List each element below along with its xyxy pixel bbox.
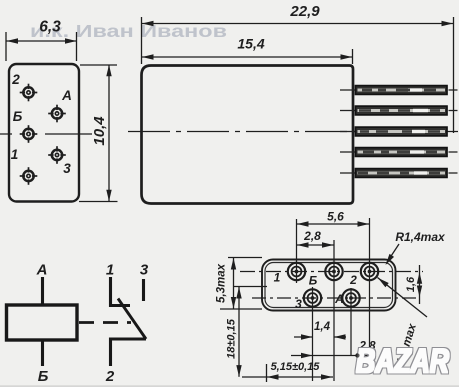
coil lead А <box>41 277 44 305</box>
svg-text:5,3max: 5,3max <box>216 263 228 303</box>
coil K1 <box>7 305 78 340</box>
contact lead 1 <box>111 277 131 306</box>
relay base outline <box>262 260 396 311</box>
relay body side view <box>142 66 354 204</box>
column line pin 1 <box>296 219 298 283</box>
svg-text:10,4: 10,4 <box>91 116 108 146</box>
base inner contour <box>265 263 393 308</box>
svg-text:1,6: 1,6 <box>405 276 417 292</box>
svg-text:18±0,15: 18±0,15 <box>226 318 238 359</box>
svg-text:3: 3 <box>295 297 302 311</box>
photo edge shadow <box>0 385 459 387</box>
pin 2 (front) <box>20 84 38 102</box>
svg-text:5,15±0,15: 5,15±0,15 <box>271 361 321 373</box>
dimension 1,6 (right) <box>419 265 421 304</box>
pin А (bottom view) <box>342 289 359 306</box>
svg-text:5,6: 5,6 <box>327 210 344 224</box>
svg-text:Б: Б <box>13 109 23 124</box>
svg-text:1,4: 1,4 <box>314 321 331 333</box>
svg-text:А: А <box>61 88 72 103</box>
dimension dot visible over watermark <box>355 353 359 357</box>
pin 2 (bottom view) <box>361 263 378 280</box>
pin 3 (bottom view) <box>304 289 321 306</box>
svg-text:1: 1 <box>106 262 114 279</box>
hole note Ø1,9 max <box>378 278 428 318</box>
pin 1 (front) <box>20 167 38 185</box>
dimension 5,6 <box>297 223 369 225</box>
pin 1 (bottom view) <box>288 263 305 280</box>
side view center line <box>128 131 458 133</box>
svg-text:Б: Б <box>38 368 49 385</box>
pin А (front) <box>48 105 66 123</box>
relay body front face <box>9 64 79 202</box>
dimension 22,9 overall length <box>142 17 454 133</box>
svg-text:А: А <box>36 262 48 279</box>
top pin row center line <box>240 271 423 273</box>
dimension 15,4 body length <box>142 49 353 64</box>
svg-text:3: 3 <box>140 262 149 279</box>
dimension 5,15±0,15 <box>242 364 333 382</box>
svg-text:3: 3 <box>63 161 71 176</box>
pin 3 (front) <box>48 146 66 164</box>
svg-text:BAZAR: BAZAR <box>356 343 449 381</box>
svg-text:Б: Б <box>309 274 318 288</box>
svg-text:А: А <box>334 292 344 306</box>
actuator dashed link <box>79 321 131 324</box>
svg-text:R1,4max: R1,4max <box>395 230 446 244</box>
front center line (node Б axis) <box>0 133 92 135</box>
dimension 1,4 <box>294 336 346 338</box>
pin 3 side (row4) <box>340 148 458 157</box>
pin 2 side (row1) <box>340 86 458 95</box>
svg-text:2,8: 2,8 <box>303 229 321 243</box>
svg-text:1: 1 <box>274 271 281 285</box>
column line pin Б <box>333 240 335 381</box>
contact lead 3 <box>142 279 145 301</box>
dimension 5,3max (left) <box>220 258 262 310</box>
dimension 6,3 width <box>6 32 77 61</box>
svg-text:6,3: 6,3 <box>39 19 61 36</box>
coil lead Б <box>41 340 44 366</box>
dimension 2,8 (bottom) <box>291 355 376 357</box>
dimension 18±0,15 (left, pin length) <box>233 287 267 377</box>
dimension 2,8 (top) <box>297 244 334 246</box>
armature (movable contact) <box>118 299 146 340</box>
dimension 10,4 height <box>79 65 118 202</box>
pin Б (bottom view) <box>325 263 342 280</box>
svg-text:2: 2 <box>11 72 20 87</box>
pin Б side (row3) <box>340 127 447 136</box>
column line pin 2 <box>369 218 371 356</box>
column line pin 3 <box>312 287 314 381</box>
svg-text:2: 2 <box>105 368 115 385</box>
svg-text:1: 1 <box>11 147 19 162</box>
common bar to lead 2 <box>111 339 147 366</box>
pin А side (row2) <box>340 106 458 115</box>
svg-text:15,4: 15,4 <box>237 36 264 52</box>
watermark BAZAR <box>356 343 449 381</box>
column line pin А <box>350 288 352 356</box>
pin Б (front) <box>20 125 38 143</box>
bottom pin row center line <box>252 297 418 299</box>
svg-text:22,9: 22,9 <box>289 3 320 20</box>
svg-text:2: 2 <box>349 273 357 287</box>
pin 1 side (row5) <box>340 169 458 178</box>
